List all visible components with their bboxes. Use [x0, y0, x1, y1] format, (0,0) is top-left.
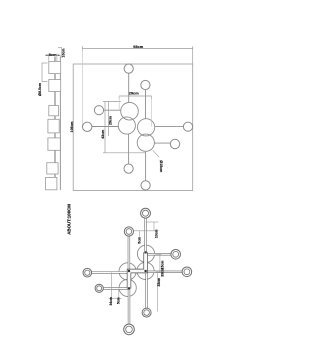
head circle bottom-right	[141, 181, 150, 190]
wire: left arm (bottom view)	[92, 271, 130, 273]
disc D (bottom)	[137, 134, 154, 151]
disc C (right)	[138, 119, 155, 136]
wire: upper-right stem	[145, 90, 147, 119]
head square S1	[49, 62, 61, 74]
stem segments	[54, 57, 56, 178]
head circle lower-right	[170, 139, 179, 148]
svg-text:10cm: 10cm	[62, 49, 66, 58]
extension lines 8cm	[48, 54, 50, 62]
dim 10cm (bottom view)	[133, 222, 158, 231]
head circle bottom	[124, 164, 133, 173]
head circle upper-right	[141, 80, 150, 89]
bracket node bottom	[128, 287, 130, 289]
svg-text:33cm: 33cm	[157, 278, 161, 287]
disc G	[119, 263, 136, 280]
bracket node top	[145, 251, 147, 253]
svg-text:33cm: 33cm	[160, 268, 164, 277]
wire: upper-right arm (bottom view)	[146, 253, 171, 255]
bounding box of top view	[73, 64, 193, 191]
head ring right (bottom view)	[182, 267, 192, 277]
svg-text:10cm: 10cm	[154, 229, 158, 238]
head ring lower-left (bottom view)	[95, 284, 103, 292]
svg-text:8cm: 8cm	[49, 52, 57, 57]
wire: right arm	[155, 126, 184, 128]
svg-text:∅8.5cm: ∅8.5cm	[38, 83, 42, 96]
head ring upper-right (bottom view)	[171, 250, 181, 260]
head square S2	[49, 80, 61, 92]
dim line for 10cm	[61, 47, 63, 58]
disc H	[119, 279, 136, 296]
bracket node corner right	[145, 270, 147, 272]
svg-text:106cm: 106cm	[70, 121, 74, 132]
wire: left arm	[92, 126, 118, 128]
arrowheads 8cm	[47, 54, 49, 56]
wire: lower-left arm (bottom view)	[103, 287, 129, 289]
dimension 29cm vertical	[108, 102, 110, 137]
disc E	[137, 245, 154, 262]
head circle right	[183, 122, 192, 131]
head square S6	[47, 163, 58, 174]
disc A (top)	[121, 102, 139, 120]
head circle top	[124, 64, 133, 73]
head square S7	[46, 177, 57, 189]
head ring upper-left (bottom view)	[124, 227, 133, 236]
dim 5cm (bottom view upper)	[139, 231, 141, 237]
wire: bottom-right stem	[145, 151, 147, 181]
disc B (left)	[118, 117, 135, 134]
head ring top (bottom view)	[141, 208, 151, 218]
main vertical rail	[59, 56, 61, 190]
dimension 43cm vertical	[103, 102, 146, 153]
dim 15cm (bottom view)	[156, 255, 162, 312]
dim 34cm (left bottom)	[109, 272, 122, 298]
wire: bottom-right stem (bottom view)	[145, 273, 147, 308]
svg-text:5cm: 5cm	[138, 237, 142, 244]
bracket node corner left	[128, 270, 130, 272]
Z bracket	[129, 252, 146, 288]
wire: lower-right arm	[154, 142, 170, 144]
wire: top stem	[128, 73, 130, 102]
extension line from 29cm dim right end	[151, 96, 153, 127]
svg-text:∅15cm: ∅15cm	[159, 160, 163, 172]
disc F	[137, 262, 154, 279]
svg-text:34cm: 34cm	[109, 297, 113, 306]
wire: upper-left arm	[104, 109, 121, 111]
leader for diameter 15cm	[153, 150, 160, 157]
head ring left (bottom view)	[83, 268, 92, 277]
wire: bottom stem (bottom view)	[128, 289, 130, 325]
head ring bottom (bottom view)	[124, 324, 135, 335]
svg-text:43cm: 43cm	[101, 130, 105, 139]
dimension 8.5cm bracket	[42, 63, 48, 82]
svg-text:15cm: 15cm	[160, 261, 164, 270]
wire: upper-left stem (bottom view)	[128, 236, 130, 271]
head square S5	[48, 138, 60, 150]
svg-text:29cm: 29cm	[129, 91, 139, 96]
wire: bottom stem	[128, 134, 130, 164]
head circle left	[83, 122, 92, 131]
head circle upper-left	[94, 106, 103, 115]
head square S3	[49, 106, 59, 116]
dimension 93cm top	[82, 46, 192, 64]
dimension 29cm horizontal	[119, 96, 151, 99]
dimension 8cm	[45, 54, 60, 56]
wire: top stem (bottom view)	[144, 218, 146, 252]
extension line from 29cm dim left end	[118, 96, 120, 110]
svg-text:5cm: 5cm	[116, 297, 120, 304]
svg-text:93cm: 93cm	[133, 44, 143, 49]
svg-text:29cm: 29cm	[108, 116, 112, 125]
wire: right arm (bottom view)	[146, 271, 182, 273]
head square S4	[48, 119, 59, 133]
extension line left (93cm)	[81, 49, 83, 127]
svg-text:ABOUT:100CM: ABOUT:100CM	[67, 204, 72, 235]
head ring bottom-right (bottom view)	[142, 308, 151, 317]
